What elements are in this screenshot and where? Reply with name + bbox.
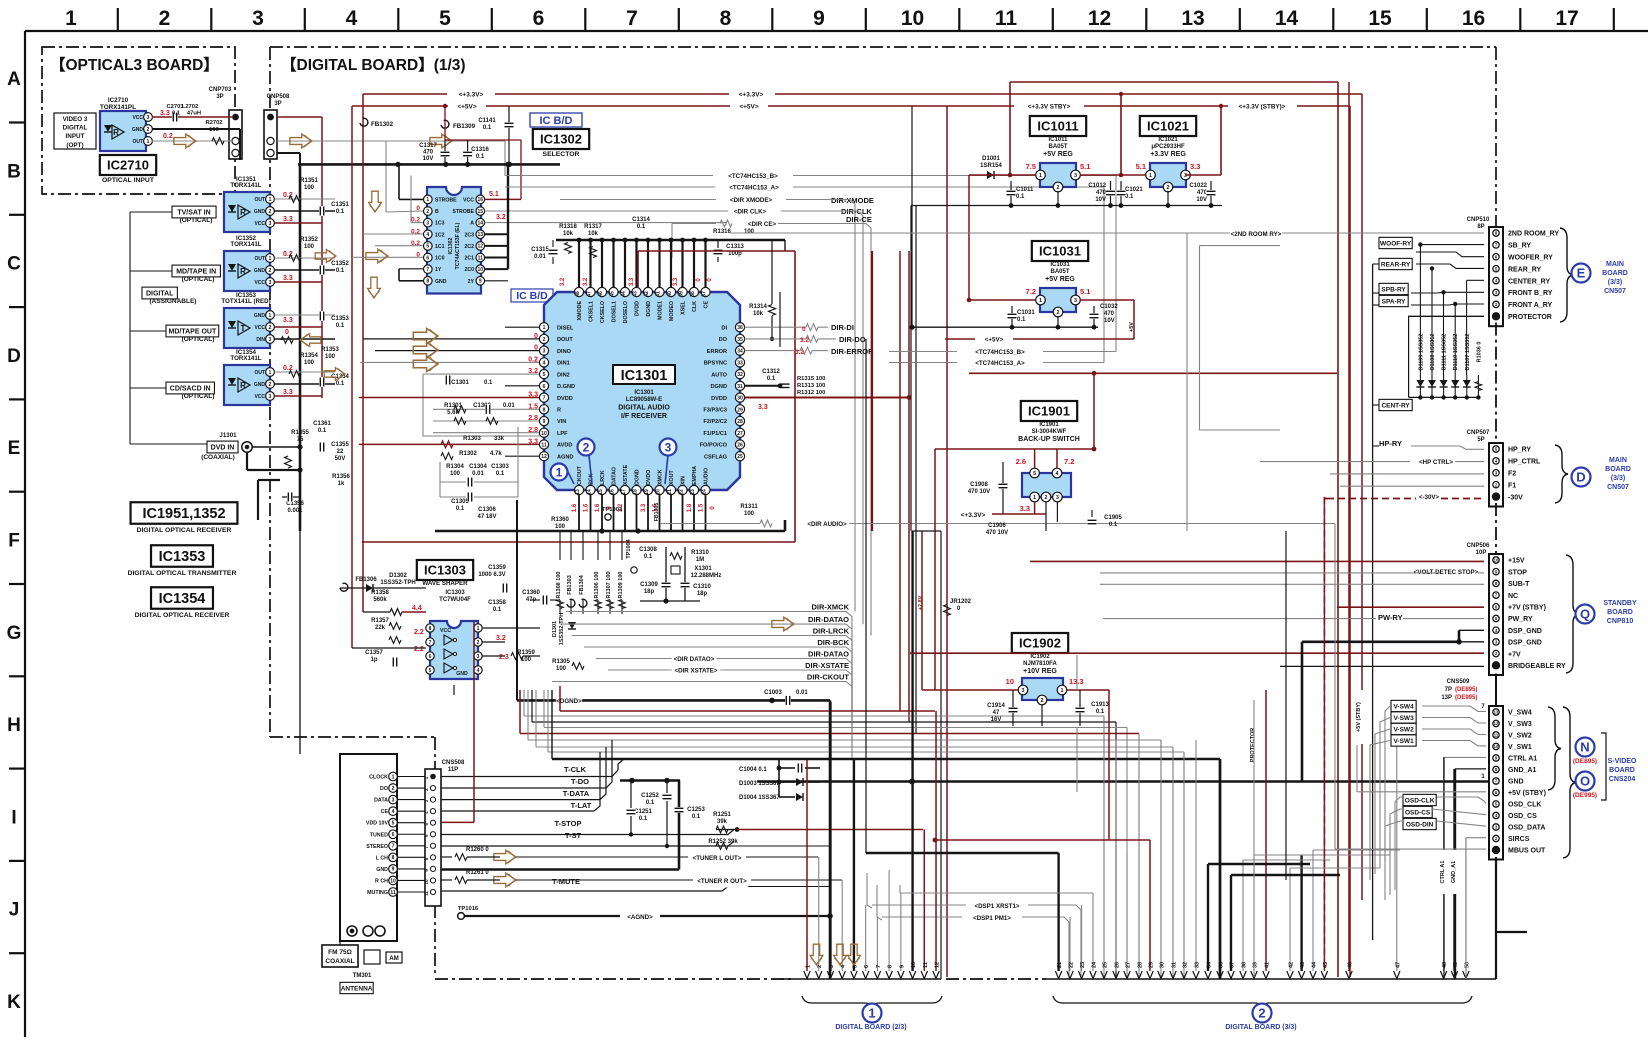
svg-text:3.2: 3.2	[795, 349, 804, 356]
svg-text:1: 1	[147, 139, 150, 145]
svg-text:36: 36	[1219, 962, 1225, 968]
svg-text:DVDD: DVDD	[557, 396, 573, 402]
svg-text:OSD-DIN: OSD-DIN	[1406, 821, 1434, 828]
svg-text:2C2: 2C2	[464, 244, 474, 250]
svg-text:I/F RECEIVER: I/F RECEIVER	[621, 413, 667, 420]
svg-text:R1315 100: R1315 100	[797, 376, 825, 382]
svg-text:13: 13	[575, 489, 581, 495]
svg-text:0.01: 0.01	[796, 690, 808, 696]
svg-text:REAR-RY: REAR-RY	[1381, 261, 1411, 268]
svg-text:STROBE: STROBE	[435, 197, 457, 203]
svg-text:DSP_GND: DSP_GND	[1508, 640, 1542, 647]
svg-text:3.3: 3.3	[283, 216, 293, 223]
svg-text:IC1353: IC1353	[159, 549, 206, 565]
svg-text:16V: 16V	[991, 717, 1002, 723]
svg-text:GND: GND	[435, 279, 447, 285]
svg-text:CNP506: CNP506	[1467, 543, 1490, 549]
svg-text:5.1: 5.1	[1136, 162, 1146, 171]
svg-text:31: 31	[1172, 962, 1178, 968]
svg-text:OUT: OUT	[254, 256, 265, 262]
svg-text:DINO: DINO	[557, 349, 572, 355]
svg-text:C1908: C1908	[970, 482, 988, 488]
svg-text:7: 7	[426, 267, 429, 273]
svg-text:FRONT B_RY: FRONT B_RY	[1508, 290, 1553, 297]
svg-text:【OPTICAL3 BOARD】: 【OPTICAL3 BOARD】	[50, 56, 219, 74]
svg-text:TP1003: TP1003	[602, 507, 623, 513]
svg-text:33: 33	[1195, 962, 1201, 968]
svg-text:7: 7	[626, 7, 638, 30]
svg-text:DIR-BCK: DIR-BCK	[817, 638, 849, 647]
svg-text:37: 37	[1230, 962, 1236, 968]
svg-text:DSP_GND: DSP_GND	[1508, 628, 1542, 635]
svg-text:R1252 39k: R1252 39k	[708, 839, 738, 845]
svg-text:8: 8	[392, 855, 395, 861]
svg-text:(DE895): (DE895)	[1455, 687, 1477, 693]
svg-text:15: 15	[1368, 7, 1392, 30]
svg-text:1: 1	[1039, 298, 1042, 304]
svg-text:<DIR CLK>: <DIR CLK>	[734, 209, 767, 216]
svg-text:μPC2933HF: μPC2933HF	[1151, 144, 1185, 150]
svg-text:DIR-CKOUT: DIR-CKOUT	[807, 673, 849, 682]
svg-text:15: 15	[598, 489, 604, 495]
svg-text:【DIGITAL BOARD】(1/3): 【DIGITAL BOARD】(1/3)	[281, 56, 466, 74]
svg-text:R1251: R1251	[713, 812, 731, 818]
svg-text:(ASSIGNABLE): (ASSIGNABLE)	[150, 298, 197, 305]
svg-text:D1107 1SS352: D1107 1SS352	[1465, 333, 1471, 370]
svg-text:0.1: 0.1	[1096, 709, 1105, 715]
svg-text:TV/SAT IN: TV/SAT IN	[177, 210, 210, 217]
svg-text:0.1: 0.1	[646, 800, 655, 806]
svg-text:IC1031: IC1031	[1039, 244, 1081, 259]
svg-text:10P: 10P	[1476, 550, 1487, 556]
svg-text:1: 1	[426, 197, 429, 203]
svg-text:24: 24	[702, 489, 708, 495]
svg-text:CKSEL1: CKSEL1	[589, 301, 595, 322]
svg-text:R1360: R1360	[551, 517, 569, 523]
svg-text:BOARD: BOARD	[1602, 270, 1628, 277]
svg-text:27: 27	[1126, 962, 1132, 968]
svg-text:0.1: 0.1	[1109, 522, 1118, 528]
svg-text:GND: GND	[1508, 779, 1524, 786]
svg-text:CENT-RY: CENT-RY	[1381, 402, 1410, 409]
svg-text:CNS508: CNS508	[442, 760, 465, 766]
svg-text:0.1: 0.1	[336, 381, 345, 387]
svg-text:<DIR CE>: <DIR CE>	[748, 221, 777, 228]
svg-text:R1317: R1317	[584, 224, 602, 230]
svg-text:10: 10	[901, 7, 924, 30]
svg-text:DGND: DGND	[635, 469, 641, 485]
svg-text:CN507: CN507	[1604, 288, 1626, 295]
svg-text:DIGITAL BOARD (2/3): DIGITAL BOARD (2/3)	[835, 1024, 906, 1031]
svg-text:IC1021: IC1021	[1158, 137, 1178, 143]
svg-text:OUT: OUT	[254, 197, 265, 203]
svg-text:30: 30	[1160, 962, 1166, 968]
svg-text:10: 10	[911, 962, 917, 968]
svg-text:R1307 100: R1307 100	[606, 572, 612, 599]
svg-text:0.1: 0.1	[1016, 194, 1025, 200]
svg-text:BOARD: BOARD	[1605, 466, 1631, 473]
svg-text:39: 39	[679, 291, 685, 297]
svg-text:18p: 18p	[644, 589, 655, 595]
svg-text:3: 3	[1022, 688, 1025, 694]
svg-text:T-MUTE: T-MUTE	[552, 877, 580, 886]
svg-text:0.1: 0.1	[692, 814, 701, 820]
svg-text:R: R	[240, 381, 246, 390]
svg-text:0.1: 0.1	[336, 323, 345, 329]
svg-text:D1301: D1301	[552, 621, 558, 637]
svg-text:F1: F1	[1508, 482, 1516, 489]
svg-text:48: 48	[1442, 962, 1448, 968]
svg-text:(3/3): (3/3)	[1608, 279, 1622, 286]
svg-text:0.1: 0.1	[336, 209, 345, 215]
svg-text:15: 15	[478, 209, 484, 215]
svg-text:48: 48	[575, 291, 581, 297]
svg-text:1.6: 1.6	[595, 503, 601, 512]
svg-text:12: 12	[1494, 721, 1499, 726]
svg-text:DIGITAL: DIGITAL	[63, 125, 88, 132]
svg-text:CN507: CN507	[1607, 484, 1629, 491]
svg-text:STEREO: STEREO	[366, 844, 388, 850]
svg-text:OSD_DATA: OSD_DATA	[1508, 825, 1545, 832]
svg-text:13: 13	[478, 232, 484, 238]
svg-text:CSFLAG: CSFLAG	[704, 454, 727, 460]
svg-text:5P: 5P	[1477, 437, 1484, 443]
svg-text:8P: 8P	[1477, 224, 1484, 230]
svg-text:CNS509: CNS509	[1447, 679, 1470, 685]
svg-text:6: 6	[533, 7, 545, 30]
svg-text:F3/P3/C3: F3/P3/C3	[703, 408, 727, 414]
svg-text:D: D	[1576, 470, 1585, 485]
svg-text:C1357: C1357	[365, 650, 383, 656]
svg-text:100p: 100p	[728, 251, 742, 257]
svg-text:ERROR: ERROR	[707, 349, 727, 355]
svg-text:16: 16	[610, 489, 616, 495]
svg-text:0.1: 0.1	[318, 428, 327, 434]
svg-text:3P: 3P	[274, 101, 281, 107]
svg-text:FB1309: FB1309	[453, 123, 476, 130]
svg-text:PROTECTOR: PROTECTOR	[1508, 314, 1552, 321]
svg-text:10: 10	[478, 267, 484, 273]
svg-text:DATA: DATA	[374, 798, 388, 804]
svg-text:10k: 10k	[588, 231, 599, 237]
svg-text:J1301: J1301	[219, 432, 237, 439]
svg-text:DVD IN: DVD IN	[211, 445, 235, 452]
svg-text:WAVE SHAPER: WAVE SHAPER	[422, 580, 468, 587]
svg-text:100: 100	[325, 354, 336, 360]
svg-text:R1356: R1356	[332, 474, 350, 480]
svg-text:<DSP1 PM1>: <DSP1 PM1>	[973, 915, 1011, 922]
svg-text:2Y: 2Y	[468, 279, 475, 285]
svg-text:CNP703: CNP703	[209, 87, 232, 93]
svg-text:XOUT: XOUT	[669, 470, 675, 485]
svg-text:L CH: L CH	[376, 855, 388, 861]
svg-text:O: O	[1580, 774, 1590, 789]
svg-text:V-SW4: V-SW4	[1393, 703, 1414, 710]
svg-text:NC: NC	[1508, 593, 1518, 600]
svg-text:G: G	[7, 623, 22, 644]
svg-text:100: 100	[304, 185, 315, 191]
svg-text:9: 9	[479, 279, 482, 285]
svg-text:R1308 100: R1308 100	[556, 572, 562, 599]
svg-text:D1110 1SS352: D1110 1SS352	[1453, 334, 1459, 371]
svg-text:VCC: VCC	[254, 325, 265, 331]
svg-text:1: 1	[1149, 173, 1152, 179]
svg-text:<DIR DATAO>: <DIR DATAO>	[674, 656, 715, 663]
svg-text:-30V: -30V	[1508, 494, 1523, 501]
svg-text:D1109 1SS352: D1109 1SS352	[1418, 333, 1424, 370]
svg-text:7: 7	[876, 965, 882, 968]
svg-text:10k: 10k	[753, 311, 764, 317]
svg-text:21: 21	[667, 489, 673, 495]
svg-text:3.3: 3.3	[1020, 504, 1030, 513]
svg-text:1k: 1k	[338, 481, 345, 487]
svg-text:OSD-CLK: OSD-CLK	[1405, 797, 1435, 804]
svg-text:0.01: 0.01	[472, 471, 484, 477]
svg-text:C1004 0.1: C1004 0.1	[739, 767, 767, 773]
svg-text:HP_CTRL: HP_CTRL	[1508, 459, 1541, 466]
svg-text:3.2: 3.2	[800, 337, 809, 344]
svg-text:0.1: 0.1	[767, 376, 776, 382]
svg-text:3.3: 3.3	[1190, 162, 1200, 171]
svg-text:10V: 10V	[1095, 197, 1106, 203]
svg-text:<+5V>: <+5V>	[739, 104, 759, 111]
svg-text:D1003 1SS367: D1003 1SS367	[739, 781, 780, 787]
svg-text:SELECTOR: SELECTOR	[543, 151, 580, 158]
svg-text:1Y: 1Y	[435, 267, 442, 273]
svg-text:3: 3	[269, 394, 272, 400]
svg-text:(DE995): (DE995)	[1573, 792, 1597, 799]
svg-text:<+3.3V>: <+3.3V>	[459, 92, 484, 99]
svg-text:2: 2	[269, 382, 272, 388]
svg-text:T-LAT: T-LAT	[571, 801, 592, 810]
svg-text:R1305: R1305	[552, 659, 570, 665]
svg-text:26: 26	[737, 443, 743, 449]
svg-text:13: 13	[1181, 7, 1204, 30]
svg-text:CE: CE	[704, 301, 710, 309]
svg-text:J: J	[9, 900, 20, 921]
svg-text:C1301: C1301	[451, 380, 469, 386]
svg-text:1: 1	[269, 313, 272, 319]
svg-text:<+3.3V (STBY)>: <+3.3V (STBY)>	[1239, 104, 1286, 111]
svg-text:TC7WU04F: TC7WU04F	[439, 597, 471, 603]
svg-text:D1004 1SS367: D1004 1SS367	[739, 795, 780, 801]
svg-text:R1314: R1314	[749, 304, 767, 310]
svg-text:R1301: R1301	[444, 403, 462, 409]
svg-text:SB_RY: SB_RY	[1508, 243, 1531, 250]
svg-text:5: 5	[426, 244, 429, 250]
svg-text:17: 17	[1555, 7, 1578, 30]
svg-text:VCC: VCC	[132, 115, 143, 121]
svg-text:GND: GND	[376, 867, 388, 873]
svg-text:DO: DO	[719, 337, 728, 343]
svg-text:10: 10	[541, 431, 547, 437]
svg-text:CENTER_RY: CENTER_RY	[1508, 278, 1550, 285]
svg-text:<-30V>: <-30V>	[1419, 494, 1440, 501]
svg-text:VCC: VCC	[463, 197, 474, 203]
svg-text:OUT: OUT	[132, 139, 143, 145]
svg-text:LPF: LPF	[557, 431, 568, 437]
svg-text:4.4: 4.4	[412, 605, 422, 612]
svg-text:MBUS OUT: MBUS OUT	[1508, 848, 1546, 855]
svg-text:1: 1	[269, 256, 272, 262]
svg-text:4: 4	[477, 668, 480, 674]
svg-text:6: 6	[864, 965, 870, 968]
svg-text:(OPTICAL): (OPTICAL)	[182, 393, 215, 400]
svg-text:11: 11	[390, 890, 396, 896]
svg-text:14: 14	[478, 220, 484, 226]
svg-text:(OPTICAL): (OPTICAL)	[180, 217, 213, 224]
svg-text:AVDD: AVDD	[557, 443, 572, 449]
svg-text:DIR-DO: DIR-DO	[839, 335, 866, 344]
svg-text:22: 22	[1069, 962, 1075, 968]
svg-text:39k: 39k	[717, 819, 728, 825]
svg-text:2: 2	[426, 209, 429, 215]
svg-text:DIGITAL OPTICAL RECEIVER: DIGITAL OPTICAL RECEIVER	[135, 612, 230, 619]
svg-text:R1303: R1303	[463, 436, 481, 442]
svg-text:29: 29	[737, 407, 743, 413]
svg-text:DIGITAL OPTICAL TRANSMITTER: DIGITAL OPTICAL TRANSMITTER	[128, 570, 237, 577]
svg-text:0.1: 0.1	[639, 816, 648, 822]
svg-text:DIGITAL BOARD (3/3): DIGITAL BOARD (3/3)	[1225, 1024, 1296, 1031]
svg-text:1.8: 1.8	[687, 503, 693, 512]
svg-text:44: 44	[1312, 961, 1318, 968]
svg-text:11: 11	[995, 7, 1018, 30]
svg-text:INPUT: INPUT	[66, 133, 85, 140]
svg-text:2: 2	[1045, 495, 1048, 501]
svg-text:3.3: 3.3	[629, 277, 635, 286]
svg-text:SIRCS: SIRCS	[1508, 836, 1530, 843]
svg-text:DISEL: DISEL	[557, 325, 574, 331]
svg-text:COAXIAL: COAXIAL	[325, 958, 354, 965]
svg-text:+15V: +15V	[1508, 558, 1525, 565]
svg-text:(DE995): (DE995)	[1455, 695, 1477, 701]
svg-text:F1/P1/C1: F1/P1/C1	[703, 431, 727, 437]
svg-text:DIGITAL: DIGITAL	[146, 291, 174, 298]
svg-text:CE: CE	[381, 809, 389, 815]
svg-text:16: 16	[478, 197, 484, 203]
svg-text:R1355: R1355	[291, 430, 309, 436]
svg-text:46: 46	[1348, 962, 1354, 968]
svg-text:EMPHA: EMPHA	[692, 466, 698, 485]
svg-text:5: 5	[543, 372, 546, 378]
svg-text:A: A	[470, 221, 474, 227]
svg-text:<DIR XSTATE>: <DIR XSTATE>	[674, 668, 717, 675]
svg-text:47 18V: 47 18V	[477, 514, 496, 520]
svg-text:<DSP1 XRST1>: <DSP1 XRST1>	[974, 903, 1019, 910]
svg-text:+7V (STBY): +7V (STBY)	[1508, 605, 1546, 612]
svg-text:<DIR XMODE>: <DIR XMODE>	[730, 197, 773, 204]
svg-text:DGND: DGND	[711, 384, 727, 390]
svg-text:C1312: C1312	[762, 369, 780, 375]
svg-text:DIR-XMODE: DIR-XMODE	[831, 196, 874, 205]
svg-text:(COAXIAL): (COAXIAL)	[201, 454, 235, 461]
svg-text:2C1: 2C1	[464, 256, 474, 262]
svg-text:6: 6	[392, 832, 395, 838]
svg-text:BACK-UP SWITCH: BACK-UP SWITCH	[1018, 436, 1080, 443]
svg-text:R1310: R1310	[691, 550, 709, 556]
svg-text:V_SW1: V_SW1	[1508, 744, 1532, 751]
svg-text:VCC: VCC	[440, 628, 451, 634]
svg-text:5.1: 5.1	[489, 191, 499, 198]
svg-text:C1360: C1360	[522, 590, 540, 596]
svg-text:38: 38	[1242, 962, 1248, 968]
svg-text:2: 2	[817, 965, 823, 968]
svg-text:1: 1	[556, 465, 563, 479]
svg-text:C1021: C1021	[1125, 187, 1143, 193]
svg-text:R: R	[113, 128, 119, 137]
svg-text:8: 8	[429, 626, 432, 632]
svg-text:0.1: 0.1	[172, 111, 181, 117]
svg-text:+5V (STBY): +5V (STBY)	[1508, 790, 1546, 797]
svg-text:CKOUT: CKOUT	[577, 465, 583, 485]
svg-text:IC1901: IC1901	[1028, 404, 1070, 419]
svg-text:R1313 100: R1313 100	[797, 383, 825, 389]
svg-text:C1031: C1031	[1017, 310, 1035, 316]
svg-text:50V: 50V	[335, 456, 346, 462]
svg-text:C1352: C1352	[331, 261, 349, 267]
svg-text:2C0: 2C0	[464, 267, 474, 273]
svg-text:3: 3	[269, 221, 272, 227]
svg-text:3: 3	[269, 337, 272, 343]
svg-text:AUTO: AUTO	[711, 372, 727, 378]
svg-text:+5V: +5V	[1129, 322, 1135, 332]
svg-text:VDD 10V: VDD 10V	[366, 821, 389, 827]
svg-text:3.3: 3.3	[283, 275, 293, 282]
svg-text:12: 12	[478, 244, 484, 250]
svg-text:MODE1: MODE1	[658, 301, 664, 320]
svg-text:FM 75Ω: FM 75Ω	[328, 949, 352, 956]
svg-text:7P: 7P	[1445, 687, 1452, 693]
svg-text:7.2: 7.2	[1026, 287, 1036, 296]
svg-text:31: 31	[737, 384, 743, 390]
svg-text:T-STOP: T-STOP	[555, 819, 582, 828]
svg-text:<TC74HC153_A>: <TC74HC153_A>	[975, 360, 1025, 367]
svg-text:R: R	[557, 408, 561, 414]
svg-text:V_SW4: V_SW4	[1508, 710, 1532, 717]
svg-text:4: 4	[1056, 471, 1059, 477]
svg-text:560k: 560k	[373, 597, 387, 603]
svg-text:NJM7810FA: NJM7810FA	[1023, 661, 1057, 667]
svg-text:B: B	[435, 209, 439, 215]
svg-text:<TUNER L OUT>: <TUNER L OUT>	[693, 855, 742, 862]
svg-text:100: 100	[556, 666, 567, 672]
svg-text:2: 2	[392, 786, 395, 792]
svg-text:32: 32	[1183, 962, 1189, 968]
svg-text:IC1302: IC1302	[448, 238, 454, 255]
svg-text:DATAO: DATAO	[612, 467, 618, 485]
svg-text:10: 10	[1006, 677, 1014, 686]
svg-text:1: 1	[269, 370, 272, 376]
svg-text:7.2: 7.2	[1064, 457, 1074, 466]
svg-text:VCC: VCC	[254, 221, 265, 227]
svg-text:<+3.3V STBY>: <+3.3V STBY>	[1028, 104, 1071, 111]
svg-text:IC1902: IC1902	[1019, 636, 1061, 651]
svg-text:23: 23	[1080, 962, 1086, 968]
svg-text:1.5: 1.5	[699, 503, 705, 512]
svg-text:4: 4	[392, 809, 395, 815]
svg-text:23: 23	[690, 489, 696, 495]
svg-text:REAR_RY: REAR_RY	[1508, 266, 1542, 273]
svg-text:FB1303: FB1303	[567, 575, 573, 595]
svg-text:DIR-XMCK: DIR-XMCK	[812, 603, 850, 612]
svg-text:DIN1: DIN1	[557, 361, 570, 367]
svg-text:2: 2	[1057, 185, 1060, 191]
svg-text:R1036 0: R1036 0	[1476, 342, 1482, 363]
svg-text:OPTICAL INPUT: OPTICAL INPUT	[102, 177, 155, 184]
svg-text:T-ST: T-ST	[565, 831, 582, 840]
svg-text:4: 4	[346, 7, 358, 30]
svg-text:2C3: 2C3	[464, 232, 474, 238]
